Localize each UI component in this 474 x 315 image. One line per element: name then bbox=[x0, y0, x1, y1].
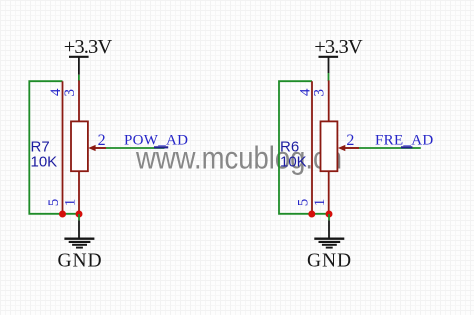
svg-text:+3.3V: +3.3V bbox=[64, 36, 113, 58]
resistor R6 element box bbox=[321, 121, 338, 171]
svg-text:1: 1 bbox=[62, 199, 78, 207]
potentiometer R7 body outline bbox=[29, 81, 79, 214]
svg-text:10K: 10K bbox=[280, 154, 307, 171]
ground symbol (right) bbox=[307, 220, 352, 271]
svg-text:5: 5 bbox=[46, 199, 62, 207]
R6 wiper arrow pin 2 bbox=[338, 145, 359, 151]
net label POW_AD bbox=[124, 133, 188, 149]
svg-text:+3.3V: +3.3V bbox=[314, 36, 363, 58]
wire FRE_AD net bbox=[359, 147, 421, 149]
junction dot R7 pin1 bbox=[76, 211, 83, 218]
power symbol +3.3V (right) bbox=[314, 36, 363, 73]
R7 pin 3 line bbox=[78, 80, 80, 121]
junction dot R7 pin5 bbox=[59, 211, 66, 218]
R7 pin 4/5 line bbox=[62, 81, 64, 214]
svg-text:3: 3 bbox=[312, 89, 328, 97]
svg-text:5: 5 bbox=[296, 199, 312, 207]
R7 pin 1 line bbox=[78, 171, 80, 214]
svg-text:GND: GND bbox=[307, 250, 352, 271]
net label FRE_AD bbox=[375, 133, 433, 149]
svg-text:3: 3 bbox=[62, 89, 78, 97]
svg-text:1: 1 bbox=[312, 199, 328, 207]
wire R6 to ground bbox=[328, 214, 330, 220]
power symbol +3.3V (left) bbox=[64, 36, 113, 75]
svg-text:2: 2 bbox=[346, 132, 354, 149]
junction dot R6 pin1 bbox=[326, 211, 333, 218]
R6 pin 3 line bbox=[328, 80, 330, 121]
svg-text:2: 2 bbox=[98, 132, 106, 149]
wire power to R6 pin3 bbox=[328, 73, 330, 81]
svg-text:10K: 10K bbox=[31, 154, 58, 171]
R6 pin 1 line bbox=[328, 171, 330, 214]
svg-text:GND: GND bbox=[58, 250, 103, 271]
junction dot R6 pin5 bbox=[308, 211, 315, 218]
wire POW_AD net bbox=[106, 147, 165, 149]
potentiometer R6 body outline bbox=[279, 81, 329, 214]
R6 pin 4/5 line bbox=[311, 81, 313, 214]
resistor R7 element box bbox=[71, 121, 88, 171]
R7 wiper arrow pin 2 bbox=[88, 145, 106, 151]
wire power to R7 pin3 bbox=[78, 75, 80, 81]
ground symbol (left) bbox=[58, 220, 103, 271]
wire R7 to ground bbox=[78, 214, 80, 220]
